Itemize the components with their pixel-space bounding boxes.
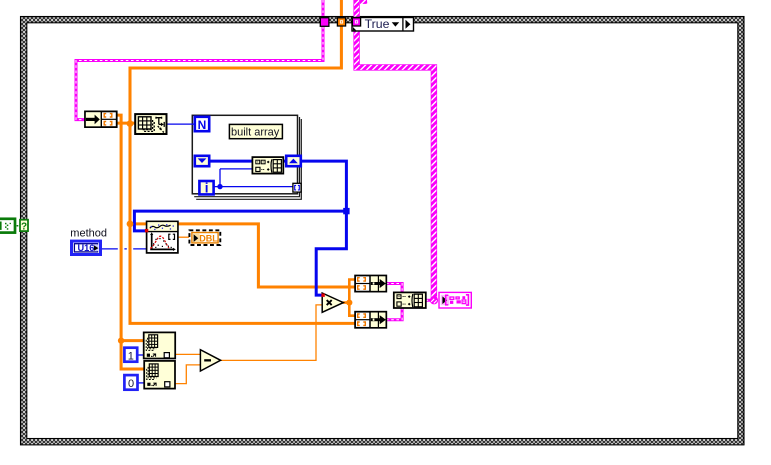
svg-text:0: 0 <box>128 378 134 390</box>
svg-text:DBL: DBL <box>199 234 218 244</box>
svg-text:U16: U16 <box>77 243 94 253</box>
svg-text:?: ? <box>21 221 27 232</box>
svg-text:1: 1 <box>128 350 134 362</box>
svg-text:method: method <box>70 228 107 240</box>
svg-text:N: N <box>198 118 207 132</box>
svg-text:i: i <box>205 181 209 196</box>
svg-text:built array: built array <box>231 126 280 138</box>
svg-text:True: True <box>365 17 390 31</box>
